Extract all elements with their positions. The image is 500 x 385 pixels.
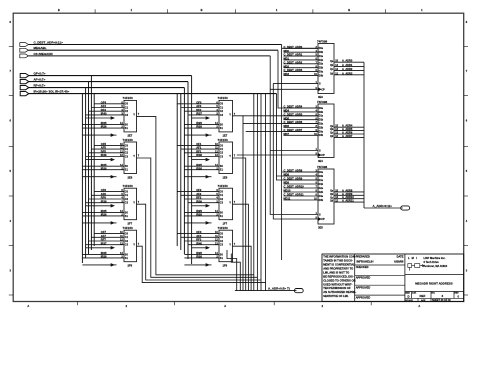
- svg-text:IR25: IR25: [196, 251, 202, 255]
- svg-text:7: 7: [234, 155, 236, 158]
- svg-text:D1a: D1a: [319, 115, 324, 118]
- svg-text:Qd: Qd: [330, 73, 334, 75]
- svg-text:C_DEST_ADR0: C_DEST_ADR0: [284, 45, 303, 49]
- svg-text:7: 7: [138, 155, 140, 158]
- svg-text:QF2: QF2: [196, 188, 202, 192]
- svg-text:AF3: AF3: [196, 234, 202, 238]
- mux 74F153 1F8 (col 2 row 4): [177, 226, 236, 268]
- svg-text:C3: C3: [125, 202, 129, 205]
- title block dividers: [355, 254, 405, 302]
- svg-text:D0a: D0a: [319, 171, 324, 174]
- wire vertical taps down to A_ADR bus (4 long verticals): [254, 94, 266, 291]
- svg-text:NO.: NO.: [432, 293, 436, 295]
- svg-text:D3b: D3b: [319, 134, 324, 137]
- svg-text:Qc: Qc: [330, 133, 334, 135]
- svg-text:Y: Y: [229, 242, 231, 246]
- svg-text:D2b: D2b: [319, 67, 324, 70]
- svg-text:8: 8: [466, 20, 468, 24]
- svg-text:D1b: D1b: [319, 119, 324, 122]
- svg-text:6/26/86: 6/26/86: [394, 259, 404, 263]
- svg-text:S1: S1: [125, 215, 129, 218]
- svg-text:3E3: 3E3: [318, 95, 323, 99]
- svg-text:Qa: Qa: [330, 191, 334, 193]
- svg-text:CP: CP: [321, 88, 325, 91]
- svg-text:Y: Y: [133, 200, 135, 204]
- svg-text:AF5: AF5: [101, 146, 107, 150]
- svg-text:C2: C2: [125, 110, 129, 113]
- svg-text:L M I: L M I: [408, 256, 417, 260]
- wire CS /MEGADR horizontal run: [28, 55, 270, 57]
- svg-text:C_DEST_ADR3: C_DEST_ADR3: [284, 68, 303, 72]
- svg-text:B: B: [58, 8, 60, 12]
- svg-text:74F153: 74F153: [218, 226, 229, 230]
- company logo LMI: [408, 256, 424, 271]
- wire QF horizontal run: [29, 75, 192, 77]
- svg-text:IR<25:26> 3OL IR<37:40>: IR<25:26> 3OL IR<37:40>: [34, 90, 70, 94]
- svg-text:MENT IS CONFIDENTIAL: MENT IS CONFIDENTIAL: [323, 263, 355, 267]
- svg-text:Qc: Qc: [330, 69, 334, 71]
- svg-text:74F153: 74F153: [218, 184, 229, 188]
- svg-text:D3a: D3a: [319, 195, 324, 198]
- svg-text:Qd: Qd: [330, 201, 334, 203]
- svg-text:IR25: IR25: [101, 209, 107, 213]
- svg-text:IR26: IR26: [196, 166, 202, 170]
- svg-text:RF2: RF2: [196, 196, 202, 200]
- svg-text:IR26: IR26: [196, 213, 202, 217]
- svg-text:74F398: 74F398: [317, 39, 328, 43]
- svg-text:IR38: IR38: [196, 153, 202, 157]
- svg-text:AF4: AF4: [101, 104, 107, 108]
- wire A_ADR bottom bus line: [235, 290, 295, 292]
- svg-text:QF6: QF6: [101, 188, 107, 192]
- svg-text:8: 8: [9, 20, 11, 24]
- svg-text:MD2: MD2: [284, 64, 290, 68]
- svg-text:A: A: [27, 304, 29, 308]
- svg-text:S1: S1: [220, 169, 224, 172]
- mux 74F153 2F7 (col 1 row 3): [82, 184, 139, 226]
- svg-text:RF5: RF5: [101, 149, 107, 153]
- svg-text:MD9: MD9: [284, 181, 290, 185]
- svg-text:C0: C0: [220, 233, 224, 236]
- svg-text:RF1: RF1: [196, 149, 202, 153]
- svg-text:IR37: IR37: [196, 112, 202, 116]
- svg-text:1E8: 1E8: [223, 175, 228, 179]
- svg-text:CS /MEGADR: CS /MEGADR: [34, 52, 54, 56]
- svg-text:S: S: [319, 82, 321, 85]
- wire bundle 1 vertical drops (QF/AF/RF/IR to left mux column): [82, 76, 94, 263]
- svg-text:D0a: D0a: [319, 47, 324, 50]
- mux 74F153 2E8 (col 1 row 2): [82, 138, 139, 180]
- wire output of right mux row 4 down to A_ADR bus: [233, 246, 252, 290]
- svg-text:Qb: Qb: [330, 194, 334, 196]
- svg-text:DATE: DATE: [397, 254, 404, 258]
- svg-text:MD10: MD10: [284, 189, 291, 193]
- svg-text:A_ADR10: A_ADR10: [342, 195, 354, 199]
- svg-text:IR39: IR39: [101, 153, 107, 157]
- AF bus input flag: [20, 78, 45, 84]
- svg-text:3: 3: [9, 268, 11, 272]
- register 74F398 3E3 (chip 1): [284, 39, 365, 99]
- svg-text:3: 3: [442, 294, 444, 298]
- svg-text:BE REPRODUCED, DIS-: BE REPRODUCED, DIS-: [323, 274, 354, 278]
- svg-text:APPROVED: APPROVED: [356, 276, 371, 280]
- svg-text:APPROVED: APPROVED: [356, 285, 371, 289]
- svg-text:AF2: AF2: [196, 192, 202, 196]
- svg-text:D1b: D1b: [319, 59, 324, 62]
- mux 74F153 2F8 (col 1 row 4): [82, 226, 139, 268]
- svg-text:SHEET 33 OF 40: SHEET 33 OF 40: [432, 299, 451, 302]
- svg-text:MD1: MD1: [284, 57, 290, 61]
- svg-text:74F398: 74F398: [317, 100, 328, 104]
- svg-text:CLOSED TO OTHERS OR: CLOSED TO OTHERS OR: [323, 278, 355, 282]
- svg-text:3E4: 3E4: [318, 159, 323, 163]
- svg-text:3: 3: [466, 268, 468, 272]
- svg-text:MD3: MD3: [284, 72, 290, 76]
- svg-text:C1: C1: [220, 106, 224, 109]
- svg-text:2E8: 2E8: [128, 175, 133, 179]
- wire bundle 2 vertical drops (QF/AF/RF/IR to right mux column): [177, 76, 191, 264]
- wire MEGABL drop to register clock pins: [278, 50, 318, 108]
- svg-text:TEN PERMISSION OF: TEN PERMISSION OF: [323, 286, 351, 290]
- svg-text:7: 7: [138, 243, 140, 246]
- svg-text:RF3: RF3: [196, 238, 202, 242]
- title cell: [405, 275, 464, 286]
- svg-text:D3a: D3a: [319, 70, 324, 73]
- IR bus input flag: [20, 90, 69, 96]
- svg-text:Qc: Qc: [330, 197, 334, 199]
- svg-text:IR37: IR37: [101, 241, 107, 245]
- svg-text:D0b: D0b: [319, 175, 324, 178]
- svg-text:C0: C0: [125, 191, 129, 194]
- svg-text:C0: C0: [125, 233, 129, 236]
- svg-text:D2a: D2a: [319, 123, 324, 126]
- wire IR horizontal run: [29, 93, 277, 95]
- svg-text:D2b: D2b: [319, 126, 324, 129]
- svg-text:6 Tech Drive: 6 Tech Drive: [424, 260, 440, 264]
- svg-text:S1: S1: [125, 169, 129, 172]
- svg-text:C_DEST_ADR2: C_DEST_ADR2: [284, 60, 303, 64]
- svg-text:1: 1: [421, 8, 423, 12]
- border zone tick marks and labels: [9, 8, 468, 308]
- svg-text:LISP Machine Inc.: LISP Machine Inc.: [424, 256, 446, 260]
- svg-text:C_DEST_ADR7: C_DEST_ADR7: [284, 128, 303, 132]
- svg-text:6: 6: [9, 119, 11, 123]
- wire RF horizontal run: [29, 87, 185, 89]
- svg-text:A_ADR6: A_ADR6: [342, 131, 353, 135]
- svg-text:C1: C1: [220, 194, 224, 197]
- QF bus input flag: [20, 72, 46, 78]
- wire right mux row 1 output through to register 2 data stub: [243, 115, 318, 117]
- svg-text:74F153: 74F153: [218, 96, 229, 100]
- svg-text:IR26: IR26: [101, 213, 107, 217]
- svg-text:QF1: QF1: [196, 142, 202, 146]
- svg-text:AND PROPRIETARY TO: AND PROPRIETARY TO: [323, 266, 353, 270]
- svg-text:MD7: MD7: [284, 132, 290, 136]
- svg-text:D: D: [408, 295, 410, 299]
- svg-text:C3: C3: [220, 202, 224, 205]
- svg-text:IR40: IR40: [101, 112, 107, 116]
- svg-text:IR39: IR39: [196, 199, 202, 203]
- svg-text:C1: C1: [125, 236, 129, 239]
- svg-text:QF4: QF4: [101, 100, 107, 104]
- wire C_DEST_ADR horizontal run: [28, 44, 281, 46]
- svg-text:MEGADR RIGHT ADDRESS: MEGADR RIGHT ADDRESS: [415, 282, 453, 286]
- svg-text:2: 2: [126, 304, 128, 308]
- svg-text:A_ADR4: A_ADR4: [342, 124, 353, 128]
- svg-text:IR25: IR25: [196, 121, 202, 125]
- mux 74F153 1E8 (col 2 row 2): [177, 138, 236, 180]
- CS /MEGADR input flag: [20, 52, 54, 58]
- svg-text:4: 4: [9, 219, 11, 223]
- svg-text:5: 5: [9, 169, 11, 173]
- svg-text:IR25: IR25: [101, 251, 107, 255]
- wire C_DEST_ADR drop along register column: [282, 45, 318, 261]
- svg-text:S1: S1: [220, 127, 224, 130]
- wire register S-pin distribution vertical: [237, 83, 318, 219]
- svg-text:Y: Y: [133, 113, 135, 117]
- svg-text:4: 4: [466, 219, 468, 223]
- svg-text:Qa: Qa: [330, 126, 334, 128]
- svg-text:74F398: 74F398: [317, 165, 328, 169]
- svg-text:Y: Y: [229, 154, 231, 158]
- svg-text:7: 7: [466, 69, 468, 73]
- svg-text:C3: C3: [125, 155, 129, 158]
- company address text: [424, 256, 448, 268]
- svg-text:D3b: D3b: [319, 74, 324, 77]
- svg-text:QF<0:7>: QF<0:7>: [34, 72, 46, 76]
- svg-text:C2: C2: [125, 198, 129, 201]
- scale / sheet row: [405, 298, 451, 302]
- svg-text:CP: CP: [321, 218, 325, 221]
- wire mux output branch to register 2 data stub b: [246, 130, 318, 132]
- svg-text:74F153: 74F153: [123, 96, 134, 100]
- svg-text:C_DEST_ADR5: C_DEST_ADR5: [284, 112, 303, 116]
- svg-text:S: S: [319, 150, 321, 153]
- size / ref / rev cells: [405, 291, 464, 298]
- svg-text:IR25: IR25: [196, 209, 202, 213]
- svg-text:LMI, AND IS NOT TO: LMI, AND IS NOT TO: [323, 270, 349, 274]
- svg-text:RF4: RF4: [101, 108, 107, 112]
- svg-text:74F153: 74F153: [123, 184, 134, 188]
- svg-text:C1: C1: [220, 236, 224, 239]
- register 74F398 3E4 (chip 2): [284, 100, 365, 163]
- svg-text:S: S: [319, 214, 321, 217]
- svg-text:C0: C0: [125, 103, 129, 106]
- svg-text:D1a: D1a: [319, 179, 324, 182]
- svg-text:A_ADR<0:5> T): A_ADR<0:5> T): [268, 286, 290, 290]
- svg-text:IR38: IR38: [101, 199, 107, 203]
- svg-text:AF0: AF0: [196, 104, 202, 108]
- svg-text:IR25: IR25: [196, 163, 202, 167]
- svg-text:A_ADR0: A_ADR0: [342, 59, 353, 63]
- svg-text:5: 5: [466, 169, 468, 173]
- svg-text:Qd: Qd: [330, 136, 334, 138]
- svg-text:IR26: IR26: [101, 166, 107, 170]
- svg-text:CP: CP: [321, 154, 325, 157]
- svg-text:IR40: IR40: [196, 241, 202, 245]
- svg-text:RF7: RF7: [101, 238, 107, 242]
- svg-text:A: A: [224, 304, 226, 308]
- svg-text:RF0: RF0: [196, 108, 202, 112]
- svg-text:QF5: QF5: [101, 142, 107, 146]
- svg-text:C1: C1: [125, 148, 129, 151]
- svg-text:2: 2: [322, 304, 324, 308]
- legal notice text: [323, 255, 356, 299]
- wire MEGABL horizontal run: [28, 49, 278, 51]
- svg-text:C2: C2: [220, 240, 224, 243]
- svg-text:C1: C1: [125, 194, 129, 197]
- svg-text:C_DEST_ADR6: C_DEST_ADR6: [284, 120, 303, 124]
- svg-text:MD4: MD4: [284, 109, 290, 113]
- svg-text:D2a: D2a: [319, 187, 324, 190]
- svg-text:C0: C0: [220, 144, 224, 147]
- svg-text:B: B: [348, 8, 350, 12]
- svg-text:A_ADR3: A_ADR3: [342, 71, 353, 75]
- svg-text:C1: C1: [125, 106, 129, 109]
- svg-text:D0b: D0b: [319, 111, 324, 114]
- wire corner pair joining A_ADR bus at left: [227, 250, 240, 291]
- wire output of right mux row 3 down to A_ADR bus: [233, 204, 249, 290]
- svg-text:IR26: IR26: [101, 125, 107, 129]
- wire output of left mux row 3 down to bottom channel: [137, 204, 262, 280]
- svg-text:C3: C3: [125, 114, 129, 117]
- svg-text:IR26: IR26: [196, 125, 202, 129]
- svg-text:Qb: Qb: [330, 65, 334, 67]
- svg-text:A_ADR2: A_ADR2: [342, 67, 353, 71]
- svg-text:IR25: IR25: [101, 163, 107, 167]
- svg-text:C2: C2: [220, 110, 224, 113]
- svg-text:CAT.: CAT.: [412, 292, 417, 295]
- svg-text:A_ADR7: A_ADR7: [342, 134, 353, 138]
- svg-text:AF7: AF7: [101, 234, 107, 238]
- svg-text:S1: S1: [220, 257, 224, 260]
- svg-text:CHECKED: CHECKED: [356, 265, 369, 269]
- svg-text:A_ADR8: A_ADR8: [342, 188, 353, 192]
- svg-text:QF3: QF3: [196, 230, 202, 234]
- svg-text:D1b: D1b: [319, 183, 324, 186]
- svg-text:THE INFORMATION CON-: THE INFORMATION CON-: [323, 255, 356, 259]
- svg-text:C_DEST_ADR10: C_DEST_ADR10: [284, 185, 305, 189]
- RF bus input flag: [20, 84, 45, 90]
- svg-text:C_DEST_ADR<9:11>: C_DEST_ADR<9:11>: [34, 41, 64, 45]
- output flag A_ADR<0:5>: [295, 290, 297, 292]
- svg-text:Qa: Qa: [330, 61, 334, 63]
- svg-text:PREPARED: PREPARED: [356, 254, 370, 258]
- svg-text:Y: Y: [229, 113, 231, 117]
- wire CS /MEGADR drop to register select pins: [270, 56, 318, 215]
- svg-text:74F153: 74F153: [218, 138, 229, 142]
- mux 74F153 1E7 (col 2 row 1): [177, 96, 236, 138]
- svg-text:AF1: AF1: [196, 146, 202, 150]
- MEGABL input flag: [20, 46, 47, 52]
- svg-text:SCALE: SCALE: [405, 299, 413, 302]
- svg-text:SENTATIVE OF LMI.: SENTATIVE OF LMI.: [323, 294, 349, 298]
- wire A_ADR output collection vertical: [363, 62, 365, 208]
- svg-text:C2: C2: [220, 198, 224, 201]
- svg-text:IR26: IR26: [196, 255, 202, 259]
- svg-text:C_DEST_ADR9: C_DEST_ADR9: [284, 177, 303, 181]
- title block outline: [322, 254, 464, 302]
- svg-text:MD8: MD8: [284, 173, 290, 177]
- svg-text:D2b: D2b: [319, 191, 324, 194]
- signature column rows: [355, 254, 405, 299]
- svg-text:A_ADR11: A_ADR11: [342, 199, 354, 203]
- wire IR line drop to register data stubs: [277, 94, 319, 180]
- svg-text:AF6: AF6: [101, 192, 107, 196]
- svg-text:C_DEST_ADR4: C_DEST_ADR4: [284, 105, 303, 109]
- svg-text:C0: C0: [220, 103, 224, 106]
- svg-text:Y: Y: [133, 242, 135, 246]
- svg-text:RF<0:7>: RF<0:7>: [34, 84, 46, 88]
- svg-text:3E5: 3E5: [318, 226, 323, 230]
- svg-text:APPROVED: APPROVED: [356, 295, 371, 299]
- svg-text:IR25: IR25: [101, 121, 107, 125]
- svg-text:A_ADR1: A_ADR1: [342, 63, 353, 67]
- mux 74F153 1F7 (col 2 row 3): [177, 184, 236, 226]
- svg-text:A_ADR5: A_ADR5: [342, 127, 353, 131]
- svg-text:MD0: MD0: [284, 49, 290, 53]
- output flag A_ADR<0:11>: [401, 206, 410, 210]
- svg-text:D1a: D1a: [319, 55, 324, 58]
- svg-text:7: 7: [234, 201, 236, 204]
- svg-text:A_ADR9: A_ADR9: [342, 192, 353, 196]
- svg-text:C_DEST_ADR1: C_DEST_ADR1: [284, 53, 303, 57]
- svg-text:74F153: 74F153: [123, 226, 134, 230]
- svg-text:A: A: [418, 304, 420, 308]
- mux 74F153 2E7 (col 1 row 1): [82, 96, 139, 138]
- svg-text:S1: S1: [125, 257, 129, 260]
- wire output of right mux row 2 down to A_ADR bus: [233, 158, 246, 291]
- svg-text:7: 7: [9, 69, 11, 73]
- svg-text:C_DEST_ADR11: C_DEST_ADR11: [284, 193, 305, 197]
- svg-text:Andover, MA 01810: Andover, MA 01810: [424, 264, 448, 268]
- svg-text:C3: C3: [220, 244, 224, 247]
- svg-text:TAINED IN THIS DOCU-: TAINED IN THIS DOCU-: [323, 259, 353, 263]
- svg-text:AN AUTHORIZED REPRE-: AN AUTHORIZED REPRE-: [323, 290, 356, 294]
- svg-text:1: 1: [131, 8, 133, 12]
- svg-text:QF0: QF0: [196, 100, 202, 104]
- svg-text:7: 7: [138, 201, 140, 204]
- svg-text:C1: C1: [220, 148, 224, 151]
- svg-text:REF: REF: [420, 294, 426, 298]
- svg-text:D2a: D2a: [319, 63, 324, 66]
- svg-text:MD5: MD5: [284, 116, 290, 120]
- svg-text:D3a: D3a: [319, 130, 324, 133]
- svg-text:7: 7: [138, 113, 140, 116]
- wire output of left mux row 2 down to bottom channel: [137, 158, 258, 277]
- svg-text:7: 7: [234, 243, 236, 246]
- svg-text:Qb: Qb: [330, 129, 334, 131]
- wire output of left mux row 1 down to bottom channel: [137, 116, 254, 274]
- svg-text:RF6: RF6: [101, 196, 107, 200]
- svg-text:C0: C0: [220, 191, 224, 194]
- svg-text:C3: C3: [220, 155, 224, 158]
- svg-text:Y: Y: [229, 200, 231, 204]
- svg-text:B: B: [201, 8, 203, 12]
- svg-text:D0b: D0b: [319, 51, 324, 54]
- svg-text:2F7: 2F7: [128, 222, 133, 226]
- svg-text:D3b: D3b: [319, 199, 324, 202]
- svg-text:6: 6: [466, 119, 468, 123]
- svg-text:1F7: 1F7: [223, 222, 228, 226]
- svg-text:Y: Y: [133, 154, 135, 158]
- svg-text:INFRAHELIH: INFRAHELIH: [357, 259, 374, 263]
- svg-text:C_DEST_ADR8: C_DEST_ADR8: [284, 169, 303, 173]
- register 74F398 3E5 (chip 3): [284, 165, 365, 230]
- svg-text:C2: C2: [220, 152, 224, 155]
- svg-text:1: 1: [276, 8, 278, 12]
- wire output of left mux row 4 down to bottom channel: [137, 246, 266, 282]
